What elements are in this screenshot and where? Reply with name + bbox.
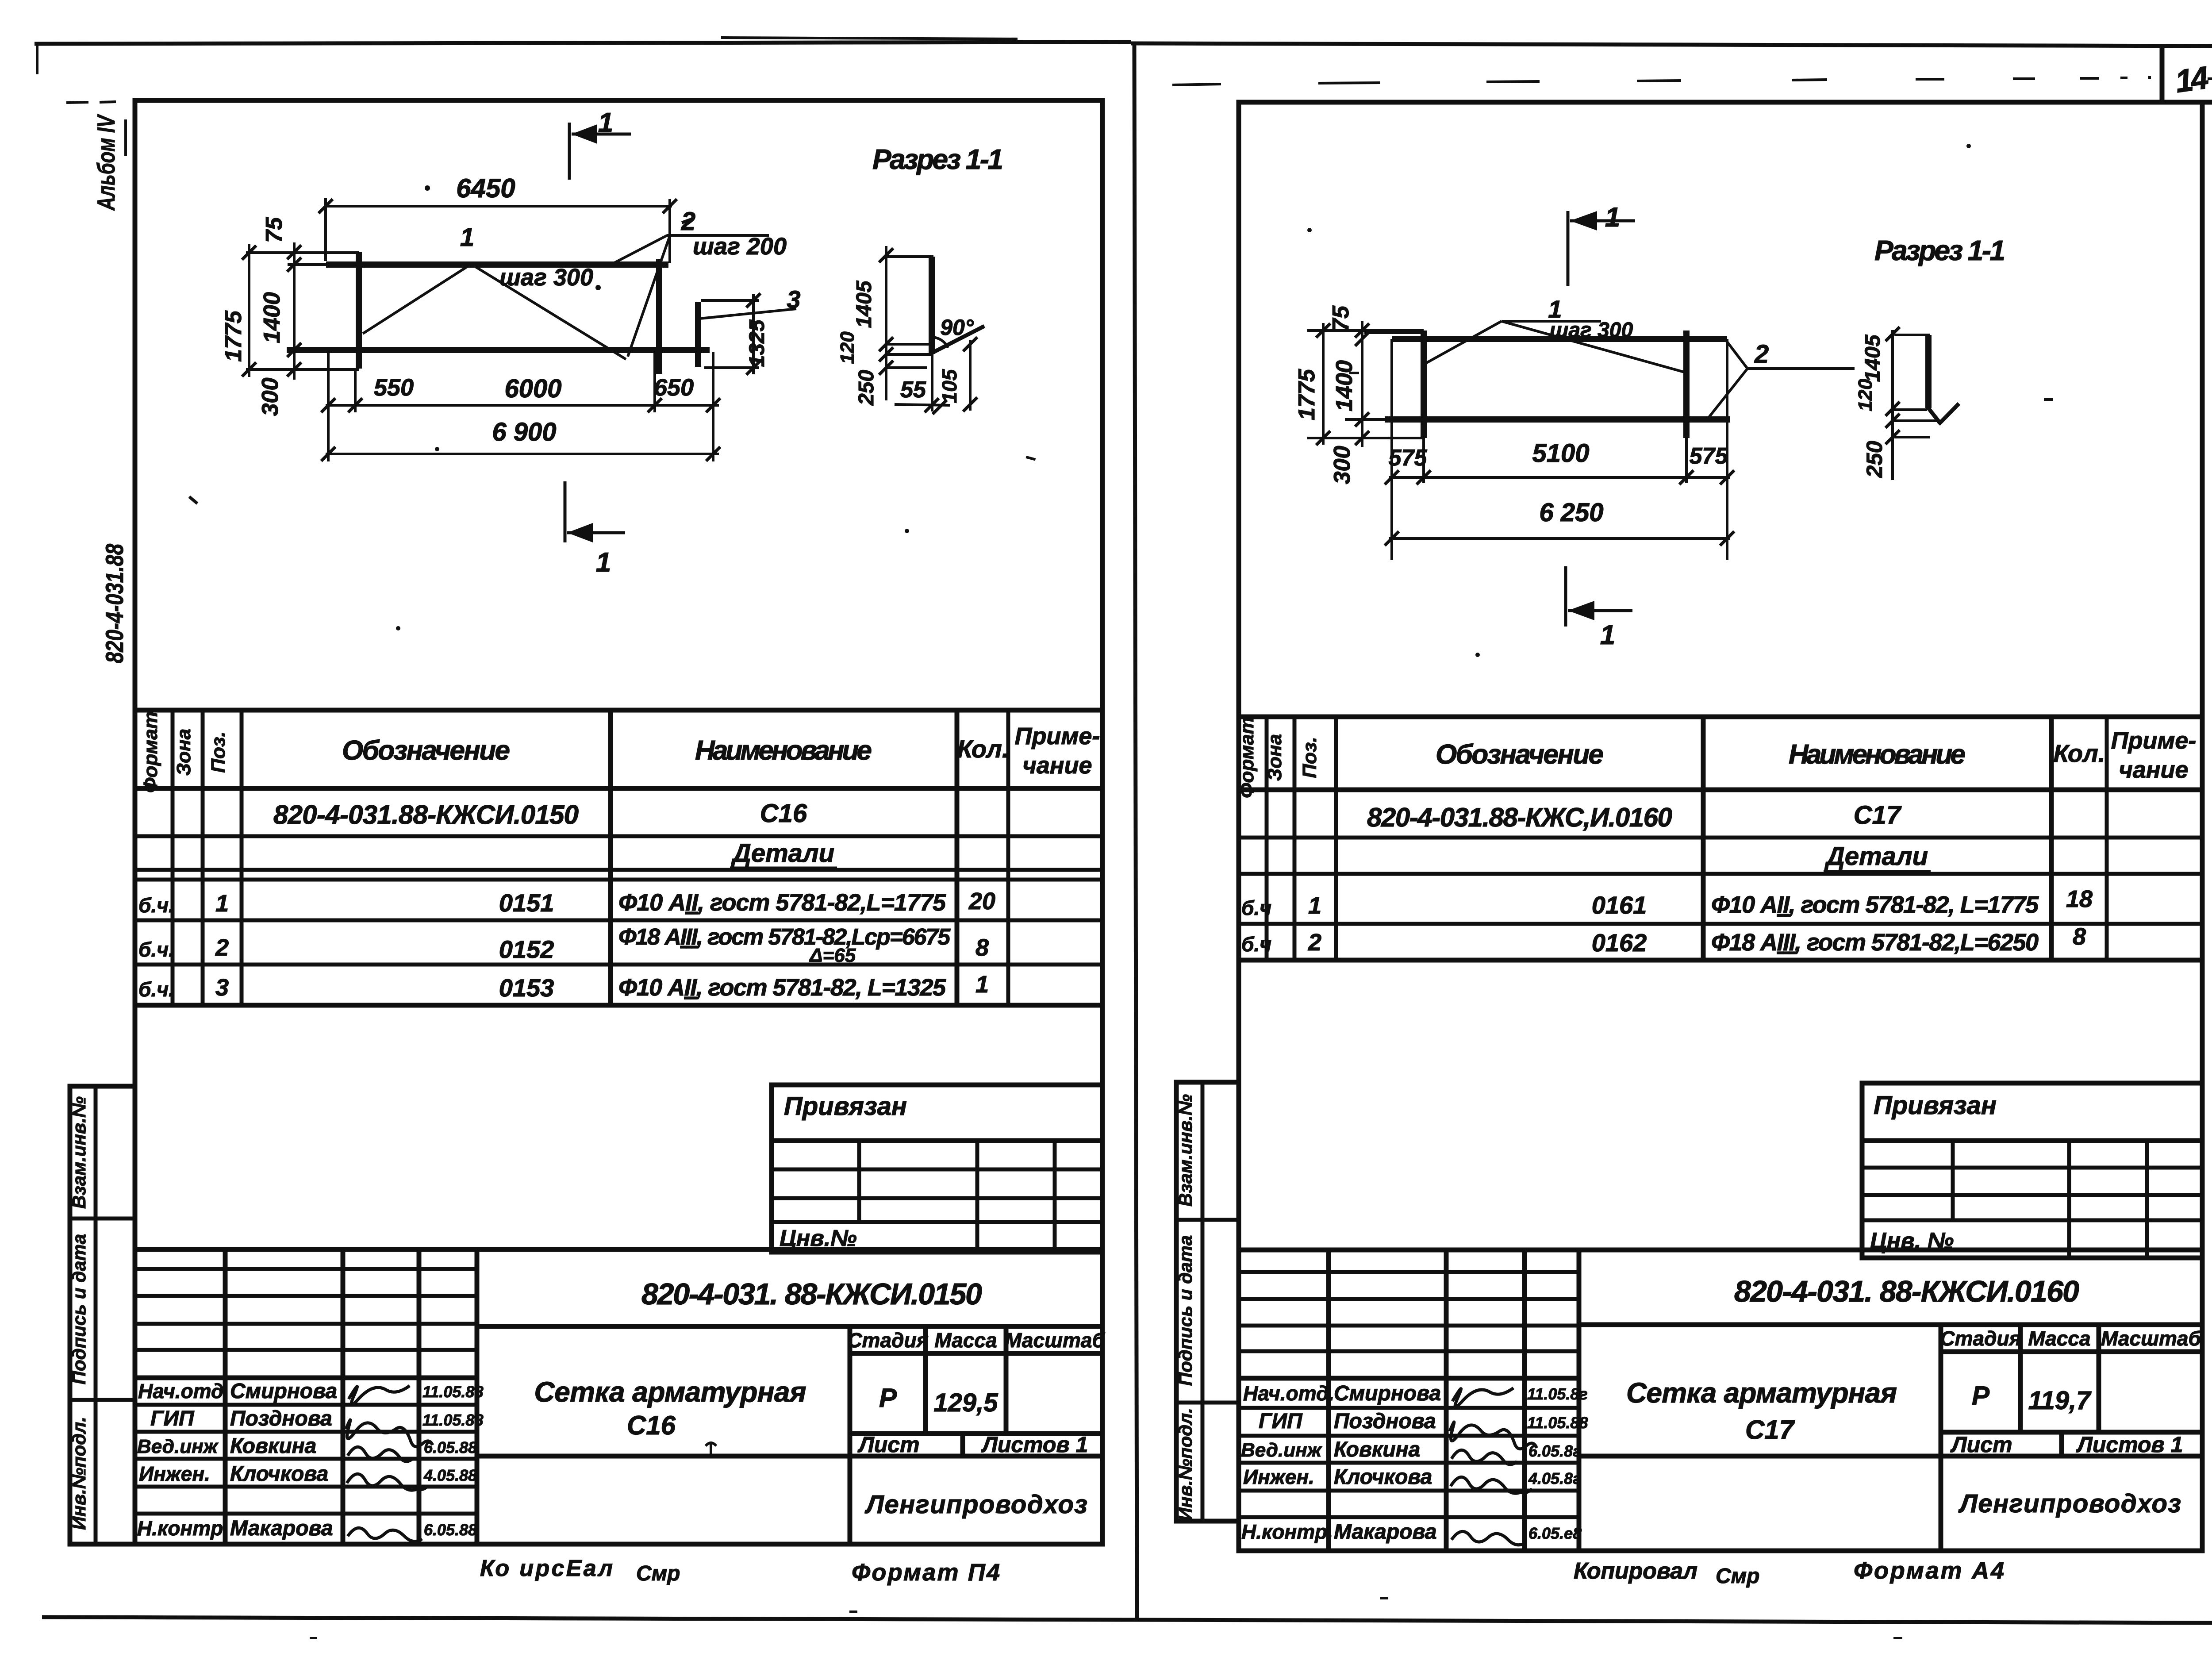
table row: Detali xyxy=(730,839,837,868)
svg-text:75: 75 xyxy=(1328,305,1354,331)
svg-text:8: 8 xyxy=(2073,923,2086,950)
svg-text:Макарова: Макарова xyxy=(1334,1520,1437,1544)
svg-text:Инжен.: Инжен. xyxy=(139,1462,210,1485)
svg-text:0151: 0151 xyxy=(499,889,554,917)
dimension 6900 xyxy=(321,418,720,461)
svg-text:4.05.8г: 4.05.8г xyxy=(1528,1469,1581,1488)
svg-text:129,5: 129,5 xyxy=(933,1388,998,1417)
right sidebar boxes xyxy=(1176,1082,1239,1521)
svg-text:Ленгипроводхоз: Ленгипроводхоз xyxy=(864,1490,1087,1519)
svg-text:Позднова: Позднова xyxy=(1334,1410,1436,1433)
svg-text:Ленгипроводхоз: Ленгипроводхоз xyxy=(1958,1489,2181,1518)
svg-text:119,7: 119,7 xyxy=(2028,1386,2092,1415)
svg-text:55: 55 xyxy=(900,377,926,403)
svg-text:Макарова: Макарова xyxy=(230,1517,333,1540)
svg-text:3: 3 xyxy=(787,285,800,313)
svg-text:б.ч.: б.ч. xyxy=(138,938,174,961)
svg-text:Лист: Лист xyxy=(857,1432,919,1457)
dimensions 75 / 1400 / 300 column xyxy=(257,217,301,416)
svg-text:Масштаб: Масштаб xyxy=(2101,1327,2201,1350)
svg-text:Приме-: Приме- xyxy=(1015,723,1100,750)
signature squiggles (right sheet) xyxy=(1450,1388,1536,1545)
svg-text:Формат А4: Формат А4 xyxy=(1854,1557,2004,1584)
svg-text:б.ч.: б.ч. xyxy=(138,978,174,1001)
svg-text:Клочкова: Клочкова xyxy=(1334,1465,1432,1489)
leader 3 xyxy=(700,285,801,319)
name Setka armaturnaya C16 xyxy=(534,1376,806,1440)
svg-text:11.05.88: 11.05.88 xyxy=(422,1411,483,1429)
svg-text:ГИП: ГИП xyxy=(1259,1410,1303,1433)
list / listov row xyxy=(857,1432,1088,1457)
stage mass scale header (right) xyxy=(1940,1327,2201,1350)
mesh edge verticals (right sheet) xyxy=(1392,339,1727,560)
list / listov row (right) xyxy=(1950,1432,2183,1457)
svg-text:1400: 1400 xyxy=(1332,360,1357,411)
svg-text:Альбом IV: Альбом IV xyxy=(92,114,120,211)
svg-text:шаг 300: шаг 300 xyxy=(499,264,593,291)
svg-text:Детали: Детали xyxy=(730,839,834,868)
svg-text:20: 20 xyxy=(968,888,995,915)
svg-text:С16: С16 xyxy=(760,799,807,828)
svg-text:2: 2 xyxy=(1308,929,1321,956)
svg-text:Ф18 АIII, гост 5781-82,L=6250: Ф18 АIII, гост 5781-82,L=6250 xyxy=(1711,929,2039,956)
svg-text:Масштаб: Масштаб xyxy=(1005,1329,1105,1352)
svg-text:Разрез 1-1: Разрез 1-1 xyxy=(1874,234,2005,266)
extra cross bar poz.3 xyxy=(695,302,701,367)
svg-text:Ф18 АIII, гост 5781-82,Lср=667: Ф18 АIII, гост 5781-82,Lср=6675 xyxy=(618,924,951,950)
dimension 6250 (right sheet) xyxy=(1385,498,1734,546)
svg-text:Обозначение: Обозначение xyxy=(1436,739,1604,770)
svg-text:Ф10 АII, гост 5781-82, L=1325: Ф10 АII, гост 5781-82, L=1325 xyxy=(618,974,946,1001)
svg-text:820-4-031. 88-КЖСИ.0150: 820-4-031. 88-КЖСИ.0150 xyxy=(641,1277,982,1311)
stage mass scale header xyxy=(847,1329,1105,1352)
dimension row 550 / 6000 / 650 xyxy=(321,352,720,461)
svg-text:1775: 1775 xyxy=(1294,369,1320,420)
table row: designation C16 xyxy=(273,799,807,830)
svg-text:575: 575 xyxy=(1389,445,1428,471)
svg-text:Нач.отд: Нач.отд xyxy=(138,1380,223,1403)
svg-text:6450: 6450 xyxy=(456,173,515,203)
svg-text:Стадия: Стадия xyxy=(1940,1327,2021,1350)
leader 2 (right sheet) xyxy=(1709,340,1855,418)
svg-text:Р: Р xyxy=(879,1383,897,1413)
svg-text:б.ч: б.ч xyxy=(1241,933,1271,956)
svg-text:Вед.инж: Вед.инж xyxy=(1241,1439,1323,1461)
signature rows (right sheet) xyxy=(1241,1382,1588,1544)
dashes left of left frame top xyxy=(66,101,221,103)
extension lines left edge (right sheet) xyxy=(1307,331,1424,438)
svg-text:90°: 90° xyxy=(940,315,974,340)
svg-text:11.05.8г: 11.05.8г xyxy=(1527,1385,1588,1403)
section mark 1-1 bottom (right sheet) xyxy=(1566,566,1632,650)
svg-text:6.05.88: 6.05.88 xyxy=(424,1438,477,1457)
table header texts (left sheet) xyxy=(140,711,1100,793)
svg-text:Привязан: Привязан xyxy=(784,1092,907,1121)
svg-text:Листов 1: Листов 1 xyxy=(2076,1432,2183,1457)
svg-text:Клочкова: Клочкова xyxy=(230,1462,328,1486)
svg-text:Наименование: Наименование xyxy=(695,735,872,766)
svg-text:Привязан: Привязан xyxy=(1874,1091,1997,1120)
svg-text:1325: 1325 xyxy=(745,319,769,367)
table row: designation C17 xyxy=(1367,801,1902,832)
table row poz.2 0162 xyxy=(1241,923,2086,957)
svg-text:1: 1 xyxy=(596,547,611,578)
svg-text:820-4-031.88-КЖС,И.0160: 820-4-031.88-КЖС,И.0160 xyxy=(1367,803,1672,832)
dimension 1775 (left) xyxy=(221,244,256,377)
svg-text:650: 650 xyxy=(654,374,694,401)
privyazan box (right sheet) xyxy=(1862,1083,2202,1258)
svg-text:шаг 300: шаг 300 xyxy=(1550,319,1633,342)
table row poz.1 0161 xyxy=(1241,886,2093,919)
svg-text:1: 1 xyxy=(1605,202,1620,233)
table row poz.1 0151 xyxy=(138,888,995,917)
svg-text:Масса: Масса xyxy=(934,1329,997,1352)
svg-text:300: 300 xyxy=(1329,446,1355,484)
svg-text:11.05.88: 11.05.88 xyxy=(1527,1414,1588,1432)
svg-text:120: 120 xyxy=(1855,379,1876,411)
svg-text:Ф10 АII, гост 5781-82, L=1775: Ф10 АII, гост 5781-82, L=1775 xyxy=(1711,892,2039,918)
svg-text:Масса: Масса xyxy=(2028,1327,2090,1350)
table header texts (right sheet) xyxy=(1236,717,2196,798)
svg-text:Поз.: Поз. xyxy=(207,731,229,773)
svg-text:1: 1 xyxy=(1600,620,1615,650)
svg-text:6 250: 6 250 xyxy=(1539,498,1603,527)
scan speckles xyxy=(188,144,2053,1639)
name Setka armaturnaya C17 xyxy=(1626,1377,1897,1445)
cross bar right poz.1 (right sheet) xyxy=(1683,331,1690,438)
svg-text:чание: чание xyxy=(1022,752,1092,779)
svg-text:Кол.: Кол. xyxy=(2054,739,2105,767)
svg-text:1: 1 xyxy=(1308,892,1321,919)
svg-text:550: 550 xyxy=(374,374,414,401)
svg-text:75: 75 xyxy=(261,217,287,243)
specification table grid (right sheet) xyxy=(1239,717,2202,960)
svg-text:250: 250 xyxy=(1862,441,1887,478)
longitudinal bar bottom poz.2 (right sheet) xyxy=(1385,416,1730,423)
frame of left sheet xyxy=(135,100,1102,1544)
svg-text:575: 575 xyxy=(1690,443,1728,469)
svg-text:1405: 1405 xyxy=(1861,334,1885,382)
svg-text:8: 8 xyxy=(975,934,989,961)
svg-text:250: 250 xyxy=(855,370,878,406)
svg-text:Ковкина: Ковкина xyxy=(230,1434,316,1458)
svg-text:Инв.№подл.: Инв.№подл. xyxy=(1175,1408,1196,1521)
svg-text:б.ч.: б.ч. xyxy=(138,894,174,917)
svg-text:Поз.: Поз. xyxy=(1299,737,1321,778)
svg-text:18: 18 xyxy=(2066,886,2093,912)
svg-text:Н.контр: Н.контр xyxy=(137,1517,223,1540)
svg-text:6.05.е8: 6.05.е8 xyxy=(1528,1524,1582,1542)
left sidebar boxes xyxy=(70,1086,135,1544)
svg-text:Подпись и дата: Подпись и дата xyxy=(1175,1235,1196,1386)
svg-text:Р: Р xyxy=(1972,1381,1990,1411)
svg-text:4.05.88: 4.05.88 xyxy=(423,1466,477,1484)
table row poz.3 0153 xyxy=(138,971,989,1002)
svg-text:3: 3 xyxy=(215,974,229,1001)
leader 1 shag 300 (left sheet) xyxy=(363,223,626,359)
svg-text:Инжен.: Инжен. xyxy=(1243,1465,1314,1488)
svg-text:11.05.88: 11.05.88 xyxy=(422,1383,483,1401)
specification table grid (left sheet) xyxy=(135,710,1102,1005)
margin text Album IV xyxy=(92,114,126,211)
title block grid (right sheet) xyxy=(1239,1250,2202,1551)
svg-text:1: 1 xyxy=(598,108,613,138)
dimension 6450 xyxy=(319,173,677,263)
svg-text:Детали: Детали xyxy=(1824,842,1928,871)
section detail bar poz.2 (left sheet razrez) xyxy=(886,257,984,411)
svg-text:Смирнова: Смирнова xyxy=(230,1380,337,1403)
svg-text:6000: 6000 xyxy=(504,374,561,403)
svg-text:Позднова: Позднова xyxy=(230,1407,332,1430)
svg-text:б.ч: б.ч xyxy=(1241,896,1271,919)
signature rows (left sheet) xyxy=(137,1380,483,1540)
svg-text:Взам.инв.№: Взам.инв.№ xyxy=(1175,1094,1196,1207)
svg-text:С17: С17 xyxy=(1854,801,1902,830)
insert mark xyxy=(706,1443,716,1456)
centre seam line between sheets xyxy=(1134,42,1137,1622)
svg-text:105: 105 xyxy=(938,369,961,403)
svg-text:С17: С17 xyxy=(1745,1415,1795,1445)
dashes after sheet number xyxy=(2208,77,2212,79)
svg-text:5100: 5100 xyxy=(1532,439,1589,468)
svg-text:Зона: Зона xyxy=(1264,734,1286,781)
svg-text:Приме-: Приме- xyxy=(2111,727,2197,754)
svg-text:1: 1 xyxy=(215,890,229,917)
longitudinal bar top poz.2 xyxy=(326,261,668,268)
svg-text:Ко ирсЕал: Ко ирсЕал xyxy=(480,1556,613,1581)
svg-text:1405: 1405 xyxy=(853,280,876,328)
svg-text:Формат: Формат xyxy=(1236,717,1258,798)
longitudinal bar top poz.2 (right sheet) xyxy=(1392,336,1727,342)
svg-text:Формат: Формат xyxy=(140,711,161,793)
svg-text:0162: 0162 xyxy=(1592,929,1647,957)
svg-text:Кол.: Кол. xyxy=(957,735,1009,763)
svg-text:Зона: Зона xyxy=(173,729,195,776)
svg-text:Ф10 АII, гост 5781-82,L=1775: Ф10 АII, гост 5781-82,L=1775 xyxy=(618,889,946,916)
title block grid (left sheet) xyxy=(135,1249,1102,1544)
table row: Detali (right) xyxy=(1824,842,1931,872)
svg-text:Δ=65: Δ=65 xyxy=(809,945,856,966)
section mark 1-1 bottom (left sheet) xyxy=(565,481,625,578)
svg-text:шаг 200: шаг 200 xyxy=(693,233,787,260)
svg-text:6.05.88: 6.05.88 xyxy=(424,1521,477,1539)
dashed top margin line of right sheet xyxy=(1172,77,2151,85)
dimensions 75 / 1400 / 300 (right sheet) xyxy=(1328,305,1369,484)
dimension 1325 xyxy=(701,293,769,375)
svg-text:0152: 0152 xyxy=(499,935,554,963)
frame of right sheet xyxy=(1239,102,2202,1551)
section detail bar poz.2 (right sheet razrez) xyxy=(1894,335,1959,424)
extension lines left edge of mesh xyxy=(246,253,359,369)
svg-text:Стадия: Стадия xyxy=(847,1329,928,1352)
svg-text:Формат П4: Формат П4 xyxy=(852,1559,1000,1586)
section detail dims 55 / 105 (left sheet) xyxy=(895,337,977,414)
svg-text:Взам.инв.№: Взам.инв.№ xyxy=(69,1096,89,1209)
svg-text:Сетка арматурная: Сетка арматурная xyxy=(1626,1377,1897,1409)
leader 2 shag 200 (left sheet) xyxy=(609,207,787,357)
svg-text:Сетка арматурная: Сетка арматурная xyxy=(534,1376,806,1408)
svg-text:Лист: Лист xyxy=(1950,1432,2012,1457)
svg-text:1: 1 xyxy=(460,223,474,252)
top paper edge line xyxy=(35,38,2212,74)
cross bar right poz.1 xyxy=(656,259,662,374)
svg-text:Разрез 1-1: Разрез 1-1 xyxy=(872,143,1003,175)
kopiroval / format below frame (left sheet) xyxy=(480,1556,1000,1586)
section detail dims 1405/120/250 (right sheet) xyxy=(1855,327,1937,480)
svg-text:1775: 1775 xyxy=(221,310,246,362)
svg-text:300: 300 xyxy=(257,378,283,416)
svg-text:Вед.инж: Вед.инж xyxy=(137,1436,219,1457)
svg-text:чание: чание xyxy=(2119,757,2188,783)
svg-text:Смирнова: Смирнова xyxy=(1334,1382,1441,1405)
svg-text:Листов 1: Листов 1 xyxy=(981,1432,1088,1457)
privyazan box (left sheet) xyxy=(772,1085,1102,1252)
svg-text:Инв.№подл.: Инв.№подл. xyxy=(69,1417,89,1530)
svg-text:Обозначение: Обозначение xyxy=(342,735,510,766)
svg-text:1400: 1400 xyxy=(259,292,285,343)
sheet number box xyxy=(1239,46,2212,102)
table row poz.2 0152 xyxy=(138,924,989,966)
svg-text:С16: С16 xyxy=(627,1411,676,1440)
stage P and mass 129,5 xyxy=(879,1383,998,1417)
section mark 1-1 top (left sheet) xyxy=(569,108,631,180)
bottom paper edge line xyxy=(42,1617,2212,1623)
svg-text:820-4-031. 88-КЖСИ.0160: 820-4-031. 88-КЖСИ.0160 xyxy=(1734,1275,2079,1308)
svg-text:ГИП: ГИП xyxy=(150,1407,195,1430)
svg-text:Смр: Смр xyxy=(636,1562,680,1585)
svg-text:Нач.отд.: Нач.отд. xyxy=(1243,1382,1334,1405)
kopiroval / format below frame (right sheet) xyxy=(1574,1557,2004,1588)
svg-text:2: 2 xyxy=(1754,340,1769,369)
stage P and mass 119,7 (right) xyxy=(1972,1381,2092,1415)
section mark 1-1 top (right sheet) xyxy=(1568,202,1635,286)
dimension 1775 (right sheet) xyxy=(1294,323,1330,445)
svg-text:Наименование: Наименование xyxy=(1789,739,1966,770)
svg-text:Н.контр.: Н.контр. xyxy=(1241,1520,1333,1543)
svg-text:Смр: Смр xyxy=(1716,1564,1760,1588)
section detail dims 1405/120/250 (left sheet) xyxy=(837,246,933,406)
dimension row 575 / 5100 / 575 (right sheet) xyxy=(1385,439,1734,484)
svg-text:Подпись и дата: Подпись и дата xyxy=(69,1234,89,1384)
svg-text:14: 14 xyxy=(2173,60,2211,100)
leader 1 shag 300 (right sheet) xyxy=(1425,295,1687,373)
svg-text:6 900: 6 900 xyxy=(492,418,556,446)
svg-text:120: 120 xyxy=(837,331,858,364)
svg-text:820-4-031.88-КЖСИ.0150: 820-4-031.88-КЖСИ.0150 xyxy=(273,800,579,830)
svg-text:Ковкина: Ковкина xyxy=(1334,1438,1420,1461)
svg-text:820-4-031.88: 820-4-031.88 xyxy=(100,543,128,663)
cross bar left poz.1 xyxy=(356,252,362,369)
signature squiggles (left sheet) xyxy=(346,1386,433,1541)
svg-text:Копировал: Копировал xyxy=(1574,1558,1697,1584)
longitudinal bar bottom poz.2 xyxy=(287,347,710,353)
svg-text:1: 1 xyxy=(975,971,989,998)
svg-text:0153: 0153 xyxy=(499,974,554,1002)
cross bar left poz.1 (right sheet) xyxy=(1421,331,1427,438)
svg-text:2: 2 xyxy=(215,934,229,961)
svg-text:0161: 0161 xyxy=(1592,891,1647,919)
